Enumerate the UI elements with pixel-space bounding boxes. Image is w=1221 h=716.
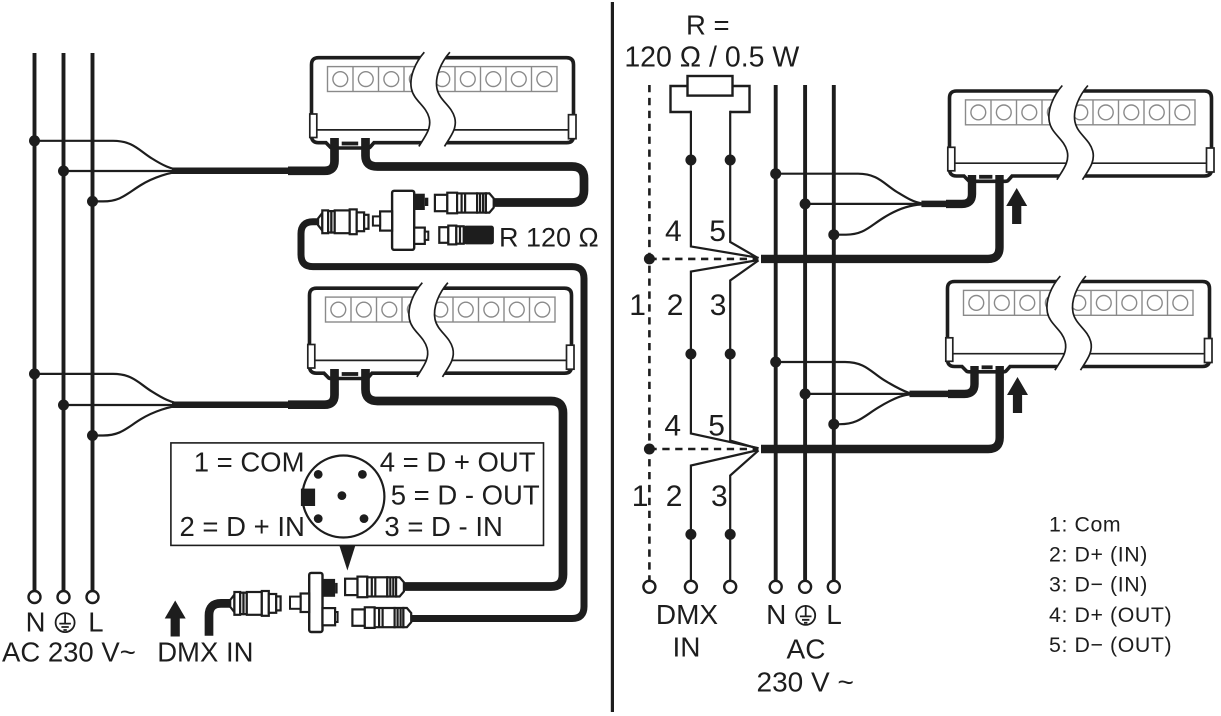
- branch wires to luminaire 2: [35, 374, 184, 436]
- wire 3 middle: [730, 260, 758, 448]
- wire PE (left AC feed): [62, 53, 66, 591]
- mains bundle cable to luminaire 1: [172, 168, 291, 175]
- T-adapter 2 (bottom): [290, 573, 338, 632]
- svg-text:N: N: [26, 607, 46, 638]
- connector face view: [301, 456, 385, 538]
- svg-text:R =: R =: [686, 10, 730, 41]
- luminaire 2 (bottom left): [308, 283, 574, 379]
- svg-text:IN: IN: [673, 632, 701, 663]
- XLR plug DMX IN into T-adapter 2: [230, 591, 280, 616]
- svg-text:5: 5: [708, 409, 725, 442]
- svg-text:5 = D - OUT: 5 = D - OUT: [391, 480, 540, 511]
- luminaire 1 (top left): [310, 52, 576, 148]
- divider line between left and right diagrams: [611, 2, 614, 712]
- branch wires to luminaire 1: [35, 141, 184, 202]
- svg-text:230 V ~: 230 V ~: [757, 667, 854, 698]
- svg-text:3: 3: [710, 289, 727, 322]
- DMX cable luminaire 2 to T-adapter 2: [366, 369, 564, 587]
- XLR plug into T-adapter 1: [318, 209, 368, 234]
- terminator plug R 120 ohm: [439, 226, 494, 245]
- XLR plug out upper of T-adapter 2: [345, 577, 404, 598]
- wire N (left AC feed): [33, 53, 37, 591]
- junction dots right: [644, 155, 839, 540]
- svg-text:2: D+ (IN): 2: D+ (IN): [1049, 543, 1148, 567]
- XLR plug out of T-adapter 1: [435, 193, 494, 214]
- svg-text:5: 5: [709, 215, 726, 248]
- DMX cable to luminaire 4: [761, 366, 1000, 449]
- T-adapter 1 (top): [373, 191, 428, 250]
- pinout table box: [171, 443, 544, 546]
- svg-text:2 = D + IN: 2 = D + IN: [180, 511, 305, 542]
- wire 2 middle: [691, 260, 759, 448]
- svg-text:AC: AC: [787, 633, 826, 664]
- DMX cable T-adapter 1 to T-adapter 2: [301, 222, 584, 619]
- svg-text:4 = D + OUT: 4 = D + OUT: [380, 447, 536, 478]
- pointer triangle: [340, 546, 356, 571]
- svg-text:3: D− (IN): 3: D− (IN): [1049, 573, 1148, 597]
- junction dots left feed: [29, 135, 98, 441]
- mains bundle to luminaire 4: [910, 391, 952, 398]
- strain relief luminaire 1: [342, 142, 359, 146]
- svg-text:4: 4: [665, 215, 682, 248]
- wire 3 lower: [730, 450, 758, 580]
- svg-text:3: 3: [711, 480, 728, 513]
- luminaire 3 (top right): [948, 86, 1214, 182]
- svg-text:3 = D - IN: 3 = D - IN: [384, 511, 502, 542]
- svg-text:1: 1: [629, 289, 646, 322]
- svg-text:2: 2: [666, 480, 683, 513]
- DMX IN arrow (left): [165, 601, 186, 637]
- svg-text:2: 2: [667, 289, 684, 322]
- svg-text:DMX IN: DMX IN: [157, 637, 253, 668]
- svg-text:DMX: DMX: [656, 599, 719, 630]
- wire L (left AC feed): [91, 53, 95, 591]
- svg-text:120 Ω / 0.5 W: 120 Ω / 0.5 W: [624, 42, 799, 74]
- svg-text:AC 230 V~: AC 230 V~: [2, 637, 136, 668]
- luminaire 4 (bottom right): [946, 276, 1212, 372]
- arrow at luminaire 3: [1006, 188, 1027, 224]
- wire 2 lower: [691, 450, 759, 581]
- mains bundle cable to luminaire 2: [172, 401, 291, 408]
- svg-text:1: Com: 1: Com: [1049, 513, 1121, 537]
- open terminals N PE L (left): [29, 591, 99, 603]
- svg-text:5: D− (OUT): 5: D− (OUT): [1049, 633, 1172, 657]
- svg-text:N: N: [766, 599, 786, 630]
- DMX IN cable (left diagram): [209, 603, 235, 635]
- branch wires to luminaire 3: [776, 174, 922, 235]
- arrow at luminaire 4: [1007, 377, 1028, 413]
- svg-text:4: 4: [664, 409, 681, 442]
- XLR plug out lower of T-adapter 2: [352, 607, 411, 628]
- strain relief luminaire 3: [979, 175, 992, 179]
- strain relief luminaire 2: [342, 372, 359, 376]
- dashed wire 1 / Com: [649, 85, 757, 581]
- svg-text:1: 1: [632, 480, 649, 513]
- AC wires right: [776, 85, 834, 581]
- branch wires to luminaire 4: [776, 362, 910, 424]
- terminating resistor symbol: [671, 76, 750, 112]
- DMX cable to luminaire 3: [761, 175, 1000, 259]
- svg-text:L: L: [88, 607, 103, 638]
- mains bundle to luminaire 3: [921, 201, 950, 208]
- DMX cable luminaire 1 to T-adapter: [366, 138, 585, 203]
- svg-text:L: L: [826, 599, 842, 630]
- strain relief luminaire 4: [982, 365, 993, 369]
- svg-text:1 = COM: 1 = COM: [194, 447, 305, 478]
- wire 4 upper: [691, 111, 759, 258]
- svg-text:4: D+ (OUT): 4: D+ (OUT): [1049, 603, 1172, 627]
- svg-text:R 120 Ω: R 120 Ω: [499, 223, 599, 253]
- open terminals right: [643, 581, 839, 593]
- wire 5 upper: [730, 111, 758, 258]
